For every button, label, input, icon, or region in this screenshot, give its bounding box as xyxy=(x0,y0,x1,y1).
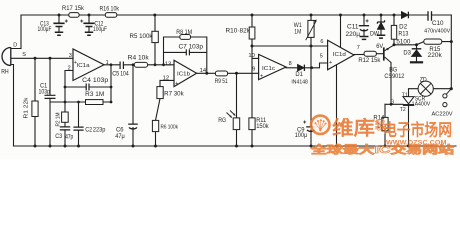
svg-text:R17 15k: R17 15k xyxy=(62,6,85,12)
wire C9 column xyxy=(310,68,312,146)
wire D3 column xyxy=(416,45,418,61)
svg-text:+: + xyxy=(329,60,332,66)
node junction at 35,146 xyxy=(34,145,37,148)
node junction at 311,46 xyxy=(310,45,313,48)
wire C2 column xyxy=(78,102,80,146)
capacitor C1 xyxy=(45,95,56,98)
watermark xyxy=(309,116,454,156)
wire R10 column pin10 and R11 column xyxy=(252,15,259,146)
svg-text:维库: 维库 xyxy=(332,116,375,139)
wire C11 column xyxy=(363,15,365,36)
svg-text:14: 14 xyxy=(200,68,207,74)
resistor R2 xyxy=(62,112,69,122)
resistor R6 xyxy=(152,120,158,131)
svg-text:3: 3 xyxy=(69,53,72,59)
node junction at 236.5,146 xyxy=(235,145,238,148)
op-amp U1 IC1c xyxy=(259,54,286,79)
node junction at 311,66 xyxy=(310,66,313,69)
node junction at 59,15 xyxy=(58,14,61,17)
svg-text:R2 1M: R2 1M xyxy=(56,112,62,126)
capacitor C3 xyxy=(60,127,70,130)
capacitor C11 xyxy=(359,26,369,31)
node junction at 50,58.3 xyxy=(49,57,52,60)
svg-text:R5 100k: R5 100k xyxy=(130,34,154,40)
capacitor C4 xyxy=(86,84,89,91)
svg-text:R6 100k: R6 100k xyxy=(161,124,179,130)
node junction at 65,102 xyxy=(64,101,67,104)
wire IC1a output to R4 to IC1b xyxy=(104,64,174,66)
svg-text:R3 1M: R3 1M xyxy=(85,92,104,98)
svg-text:R10·82k: R10·82k xyxy=(226,28,252,34)
capacitor C12 xyxy=(83,23,94,26)
photoresistor RG xyxy=(233,118,240,130)
svg-text:223p: 223p xyxy=(93,127,106,133)
wire gate row xyxy=(385,103,403,105)
svg-text:IC1d: IC1d xyxy=(333,52,346,58)
wire SCR anode to lamp xyxy=(409,89,419,97)
wire IC1c output D1 to IC1d pin5 xyxy=(286,63,328,68)
node junction at 133,146 xyxy=(132,145,135,148)
wire emitter node row y44.8 xyxy=(394,42,451,45)
svg-text:150k: 150k xyxy=(256,124,269,130)
svg-text:220μ: 220μ xyxy=(346,32,361,38)
svg-text:R8 1M: R8 1M xyxy=(176,30,192,36)
resistor R12 xyxy=(364,51,376,56)
node junction at 340.5,15 xyxy=(339,14,342,17)
wire IC1d ground pin column xyxy=(336,65,338,146)
svg-text:100μF: 100μF xyxy=(38,27,52,33)
node junction at 155.5,146 xyxy=(154,145,157,148)
svg-text:T1: T1 xyxy=(402,93,408,99)
wire R13 column xyxy=(393,15,395,45)
node junction at 311,146 xyxy=(310,145,313,148)
op-amp U1 IC1b xyxy=(174,60,197,86)
zener diode DW xyxy=(377,20,384,23)
ground below DW xyxy=(377,35,386,38)
svg-text:BG: BG xyxy=(389,67,397,73)
svg-text:R16 10k: R16 10k xyxy=(100,6,120,12)
svg-text:C3: C3 xyxy=(55,134,63,140)
svg-text:100μ: 100μ xyxy=(295,133,308,139)
node junction at 78.5,102 xyxy=(77,101,80,104)
wire AC right column xyxy=(450,15,452,89)
svg-text:DW: DW xyxy=(370,32,379,38)
node junction at 111,64.8 xyxy=(110,63,113,66)
svg-text:CS9012: CS9012 xyxy=(384,74,405,80)
svg-text:D1: D1 xyxy=(295,72,303,78)
svg-text:7: 7 xyxy=(357,45,360,51)
node junction at 154.8,15 xyxy=(153,14,156,17)
wire IC1a output column xyxy=(110,65,112,102)
wire left drop to mic xyxy=(12,15,22,49)
capacitor C9 xyxy=(306,127,316,132)
svg-text:AC220V: AC220V xyxy=(432,111,453,117)
svg-text:ZD: ZD xyxy=(420,77,428,83)
svg-text:S: S xyxy=(22,52,26,58)
svg-text:C11: C11 xyxy=(347,24,359,30)
node junction at 451.3,41.6 xyxy=(450,40,453,43)
svg-text:W1: W1 xyxy=(294,23,303,29)
svg-text:RG: RG xyxy=(218,118,226,124)
wire node divider y46 xyxy=(252,45,328,47)
node junction at 394,44.8 xyxy=(393,43,396,46)
lamp ZD xyxy=(418,81,433,96)
resistor R16 xyxy=(105,13,117,18)
potentiometer W1 xyxy=(308,20,314,37)
node junction at 163.5,64.8 xyxy=(162,63,165,66)
AC220V arrow xyxy=(446,88,451,94)
resistor R1 xyxy=(32,101,38,117)
node junction at 65,87 xyxy=(64,86,67,89)
wire C12 column xyxy=(88,15,90,32)
svg-text:C4 103p: C4 103p xyxy=(82,78,109,84)
svg-text:470n/400V: 470n/400V xyxy=(424,28,451,34)
resistor R15 xyxy=(424,39,442,44)
node junction at 111,102 xyxy=(110,101,113,104)
node junction at 336.5,146 xyxy=(335,145,338,148)
wire collector column xyxy=(390,63,392,105)
svg-text:IC1c: IC1c xyxy=(262,66,275,72)
resistor R8 xyxy=(180,35,191,40)
svg-text:C6: C6 xyxy=(116,128,124,134)
op-amp U1 IC1d xyxy=(328,40,354,70)
svg-text:220k: 220k xyxy=(428,53,443,59)
svg-text:47p: 47p xyxy=(65,135,74,141)
node junction at 252,146 xyxy=(251,145,254,148)
node junction at 252,15 xyxy=(251,14,254,17)
op-amp U1 IC1a xyxy=(73,49,104,81)
svg-text:IC1a: IC1a xyxy=(77,63,91,69)
svg-text:D: D xyxy=(13,42,17,48)
svg-text:IN4148: IN4148 xyxy=(291,80,308,86)
capacitor C7 xyxy=(186,49,189,55)
node junction at 451.3,88.7 xyxy=(450,87,453,90)
node junction at 391,104.3 xyxy=(390,103,393,106)
svg-text:C2: C2 xyxy=(85,127,93,133)
resistor R17 xyxy=(69,13,79,18)
svg-text:2: 2 xyxy=(68,66,71,72)
svg-text:全球最大IC交易网站: 全球最大IC交易网站 xyxy=(309,143,454,156)
diode D2 on rail xyxy=(402,12,409,19)
wire lamp right to AC column xyxy=(433,88,451,90)
svg-text:6: 6 xyxy=(320,39,323,45)
wire R12 to transistor base xyxy=(376,53,383,55)
node junction at 408.5,146 xyxy=(407,145,410,148)
AC220V terminal circles xyxy=(443,94,447,98)
capacitor C10 on rail xyxy=(428,11,432,21)
svg-text:电子市场网: 电子市场网 xyxy=(383,119,452,139)
wire C4 feedback branch xyxy=(65,86,111,88)
wire W1 column xyxy=(310,15,312,68)
node junction at 89,15 xyxy=(88,14,91,17)
svg-text:13: 13 xyxy=(165,61,172,67)
ground below C11 xyxy=(360,37,369,40)
svg-text:R12 15k: R12 15k xyxy=(358,58,381,64)
resistor R5 xyxy=(152,31,158,42)
svg-text:C10: C10 xyxy=(432,21,444,27)
node junction at 111,87 xyxy=(110,86,113,89)
svg-text:G: G xyxy=(390,100,394,106)
wire bottom rail xyxy=(14,145,457,147)
ground below C12 xyxy=(85,32,93,35)
svg-text:12: 12 xyxy=(163,75,170,81)
wire R14 column xyxy=(384,104,386,146)
svg-text:R7 30k: R7 30k xyxy=(164,91,185,97)
capacitor C13 xyxy=(53,23,64,26)
node junction at 381,15 xyxy=(380,14,383,17)
svg-text:+: + xyxy=(175,81,178,87)
svg-text:10: 10 xyxy=(248,53,255,59)
node junction at 155,64.8 xyxy=(154,63,157,66)
wire C3 link xyxy=(64,122,66,146)
capacitor C5 xyxy=(120,62,123,70)
resistor R4 xyxy=(134,62,147,67)
transistor Q1 BG CS9012 xyxy=(383,47,385,60)
svg-text:R13: R13 xyxy=(398,31,409,37)
wire C1 column xyxy=(50,58,65,146)
svg-text:100μF: 100μF xyxy=(93,27,107,33)
resistor R9 xyxy=(215,71,227,76)
svg-text:D3: D3 xyxy=(403,51,411,57)
node junction at 394,15 xyxy=(393,14,396,17)
wire mic ground column xyxy=(12,65,14,147)
resistor R3 xyxy=(86,100,104,105)
wire R3 feedback branch xyxy=(65,101,111,103)
node junction at 252,46 xyxy=(251,45,254,48)
svg-text:5: 5 xyxy=(320,54,323,60)
capacitor C6 xyxy=(128,124,138,129)
svg-text:104: 104 xyxy=(120,71,129,77)
node junction at 385,146 xyxy=(384,145,387,148)
svg-text:1: 1 xyxy=(106,60,109,66)
svg-text:9: 9 xyxy=(252,66,255,72)
svg-text:C7 103p: C7 103p xyxy=(179,44,204,50)
wire C6 column xyxy=(132,65,134,146)
svg-text:5100: 5100 xyxy=(396,40,411,46)
node junction at 416.5,44.8 xyxy=(415,43,418,46)
svg-text:C5: C5 xyxy=(112,72,120,78)
wire R1 column xyxy=(34,58,36,146)
capacitor C2 xyxy=(73,127,83,130)
thyristor SCR xyxy=(403,97,414,104)
wire IC1d out to R12 xyxy=(354,54,364,56)
microphone RH body xyxy=(2,48,11,66)
resistor R14 xyxy=(382,117,388,130)
svg-text:47μ: 47μ xyxy=(115,134,125,140)
resistor R10 xyxy=(249,27,255,39)
wire C13 column xyxy=(58,15,60,32)
diode D3 xyxy=(412,48,422,50)
svg-text:1M: 1M xyxy=(294,29,301,35)
watermark logo ring xyxy=(311,116,329,134)
svg-text:D2: D2 xyxy=(399,24,408,30)
wire mic S output xyxy=(12,57,74,59)
wire DW column xyxy=(380,15,382,35)
node junction at 35,58.3 xyxy=(34,57,37,60)
node junction at 364,15 xyxy=(363,14,366,17)
node junction at 78.5,146 xyxy=(77,145,80,148)
svg-text:1A400V: 1A400V xyxy=(412,101,431,107)
wire IC1b feedback loop xyxy=(164,37,207,74)
svg-text:+: + xyxy=(260,74,263,80)
node junction at 311,15 xyxy=(310,14,313,17)
resistor R13 xyxy=(391,25,396,39)
svg-text:8: 8 xyxy=(289,61,292,67)
node junction at 206.8,73.3 xyxy=(205,72,208,75)
wire IC1d power stub xyxy=(340,15,342,47)
wire RG column xyxy=(236,73,238,146)
diode D1 xyxy=(298,65,304,71)
wire IC1b output to R9 to IC1c xyxy=(197,72,259,74)
wire IC1a pin2 stub and feedback column xyxy=(65,71,73,113)
svg-text:RH: RH xyxy=(1,69,9,75)
svg-text:R9 51: R9 51 xyxy=(215,79,229,85)
wire top rail xyxy=(21,14,451,16)
wire SCR cathode column xyxy=(408,106,410,146)
svg-text:R1 22k: R1 22k xyxy=(24,97,30,118)
svg-text:R4 10k: R4 10k xyxy=(128,56,150,62)
node junction at 133,64.8 xyxy=(132,63,135,66)
svg-text:T2: T2 xyxy=(400,107,406,113)
wire IC1b pin12 and R7 R6 column xyxy=(156,80,175,146)
svg-text:6V: 6V xyxy=(376,44,383,50)
svg-text:IC1b: IC1b xyxy=(177,72,190,78)
node junction at 50,146 xyxy=(49,145,52,148)
resistor R11 xyxy=(249,118,255,130)
wire R5 column xyxy=(154,15,156,65)
ground below C13 xyxy=(55,32,63,35)
svg-text:103p: 103p xyxy=(39,89,51,95)
node junction at 236.5,73.3 xyxy=(235,72,238,75)
node junction at 65,146 xyxy=(64,145,67,148)
resistor R7 xyxy=(157,87,163,99)
ground below D3 xyxy=(410,61,423,63)
